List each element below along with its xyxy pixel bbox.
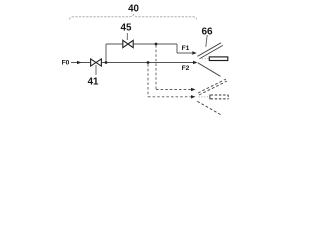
svg-text:F1: F1: [182, 45, 190, 52]
svg-text:40: 40: [128, 4, 139, 15]
svg-text:F0: F0: [62, 59, 70, 66]
svg-text:45: 45: [121, 22, 132, 33]
svg-text:41: 41: [88, 76, 99, 87]
svg-text:F2: F2: [182, 65, 190, 72]
svg-text:66: 66: [201, 26, 213, 37]
